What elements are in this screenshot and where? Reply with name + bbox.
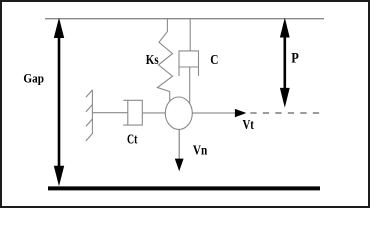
top rail (fixed support line)	[45, 18, 324, 20]
P double arrow	[280, 18, 290, 108]
damper C bottom rod	[189, 67, 191, 104]
damper Ct piston plate	[127, 100, 129, 126]
svg-text:Ct: Ct	[127, 132, 138, 147]
Vn arrowhead	[175, 159, 184, 172]
wall (hatched anchor)	[86, 90, 93, 141]
Vt arrow shaft	[192, 112, 236, 114]
svg-text:P: P	[291, 50, 299, 66]
damper Ct rod from wall	[92, 112, 127, 114]
svg-text:Gap: Gap	[23, 70, 44, 85]
damper Ct cylinder (open-left cup)	[123, 100, 142, 125]
svg-text:Vn: Vn	[193, 143, 208, 158]
bottom surface (thick ground line)	[48, 186, 320, 190]
Vn arrow shaft	[178, 130, 180, 162]
dashed reference line	[250, 112, 321, 114]
svg-text:Ks: Ks	[146, 52, 159, 67]
Gap double arrow	[54, 18, 64, 187]
mass (ball)	[165, 97, 192, 129]
svg-text:Vt: Vt	[243, 117, 255, 132]
spring Ks	[157, 19, 172, 101]
damper C piston plate	[179, 66, 199, 68]
damper C top rod	[189, 19, 191, 51]
Vt arrowhead	[235, 109, 247, 117]
svg-text:C: C	[210, 53, 218, 68]
damper Ct rod to mass	[142, 112, 165, 114]
damper C cylinder (open-bottom cup)	[179, 51, 199, 76]
